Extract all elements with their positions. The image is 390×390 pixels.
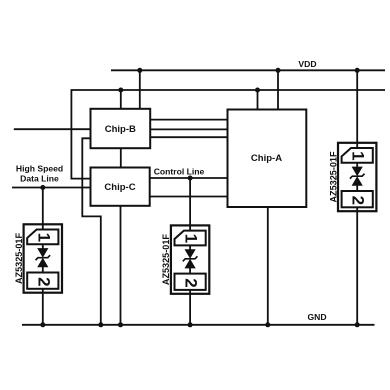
junction dot rail2 / Chip-B wire [118,88,123,93]
junction dot GND / D3 [355,322,360,327]
wire VDD rail [111,69,385,71]
junction dot VDD / Chip-B wire [137,68,142,73]
svg-text:Data Line: Data Line [20,173,59,183]
junction dot GND / D1 [40,322,45,327]
svg-text:2: 2 [349,196,368,205]
D1 outer package body [24,224,62,292]
wire right TVS diode D3 to GND [356,211,358,325]
svg-text:Control Line: Control Line [154,167,205,177]
D2 internal wire [189,225,191,230]
D1 pin 2 number [34,277,53,286]
junction dot GND / D2 [188,322,193,327]
D2 TVS diode symbol [185,250,195,258]
wire bus Chip-B to Chip-A line 3 [150,136,227,138]
svg-text:2: 2 [182,278,201,287]
junction dot GND / Chip-C wire [118,322,123,327]
D1 pin 2 box [27,273,58,289]
junction dot VDD / Chip-A wire [276,68,281,73]
wire rail2 to Chip-B [120,90,122,109]
wire rail2 (supply net to Chip-B / Chip-A / Chip-C) [71,90,385,179]
wire VDD to Chip-A [277,70,279,109]
D1 pin 1 number [34,233,53,242]
junction dot control line / D2 [188,176,193,181]
D3 TVS diode symbol [352,167,362,175]
svg-text:AZ5325-01F: AZ5325-01F [161,234,171,285]
junction dot data line / D1 [40,185,45,190]
D2 outer package body [171,225,209,293]
wire data line to left TVS diode D1 [42,188,44,225]
wire rail2 to Chip-A [257,90,259,110]
D2 pin 1 box (chamfered) [175,231,206,246]
D2 pin 1 number [182,234,201,243]
junction dot rail2 / Chip-A wire [255,88,260,93]
wire left TVS diode D1 to GND [42,293,44,325]
svg-text:Chip-B: Chip-B [105,124,136,135]
junction dot VDD / D3 wire [355,68,360,73]
wire control line Chip-C to Chip-A [150,177,228,179]
junction dot GND / Chip-A wire [265,322,270,327]
D2 pin 2 number [182,278,201,287]
wire Chip-A bottom to GND [267,207,269,325]
D3 pin 1 number [349,151,368,160]
svg-text:1: 1 [349,151,368,160]
D3 outer package body [338,143,376,211]
svg-text:1: 1 [182,234,201,243]
wire high speed data line (lower) to Chip-C [12,187,91,189]
TVS diode package D2 (middle, AZ5325-01F) [161,225,209,293]
D3 pin 2 number [349,196,368,205]
svg-text:2: 2 [34,277,53,286]
wire middle TVS diode D2 to GND [189,294,191,325]
svg-text:Chip-A: Chip-A [251,153,282,164]
D3 internal wire [356,143,358,148]
svg-text:1: 1 [34,233,53,242]
D3 pin 2 box [342,191,373,207]
wire Chip-B left pin to GND (jogged) [82,138,101,324]
svg-text:GND: GND [307,312,326,322]
TVS diode package D3 (right, AZ5325-01F) [328,143,376,211]
wire VDD to right TVS diode D3 [356,70,358,143]
D2 pin 2 box [175,274,206,290]
junction dot GND / Chip-B jog wire [98,322,103,327]
TVS diode package D1 (left, AZ5325-01F) [14,224,62,292]
wire high speed data line (upper) to Chip-B [14,128,91,130]
wire control line to middle TVS diode D2 [189,178,191,225]
D1 internal wire [42,224,44,229]
wire bus Chip-B to Chip-A line 1 [150,119,227,121]
svg-text:VDD: VDD [298,59,316,69]
wire Chip-B bottom to Chip-C top [120,148,122,167]
chip U1 Chip-B [91,109,151,148]
svg-text:Chip-C: Chip-C [104,182,135,193]
D3 pin 1 box (chamfered) [342,148,373,163]
wire GND rail [22,324,375,326]
wire bus Chip-B to Chip-A line 2 [150,128,227,130]
wire VDD to Chip-B [139,70,141,109]
wire second line Chip-C to Chip-A [150,196,228,198]
D1 pin 1 box (chamfered) [27,230,58,245]
svg-text:AZ5325-01F: AZ5325-01F [328,151,338,202]
chip U2 Chip-C [91,168,150,206]
chip U3 Chip-A [228,110,307,208]
D1 TVS diode symbol [38,249,48,257]
svg-text:AZ5325-01F: AZ5325-01F [14,233,24,284]
svg-text:High Speed: High Speed [16,164,63,174]
wire Chip-C bottom to GND [120,206,122,325]
